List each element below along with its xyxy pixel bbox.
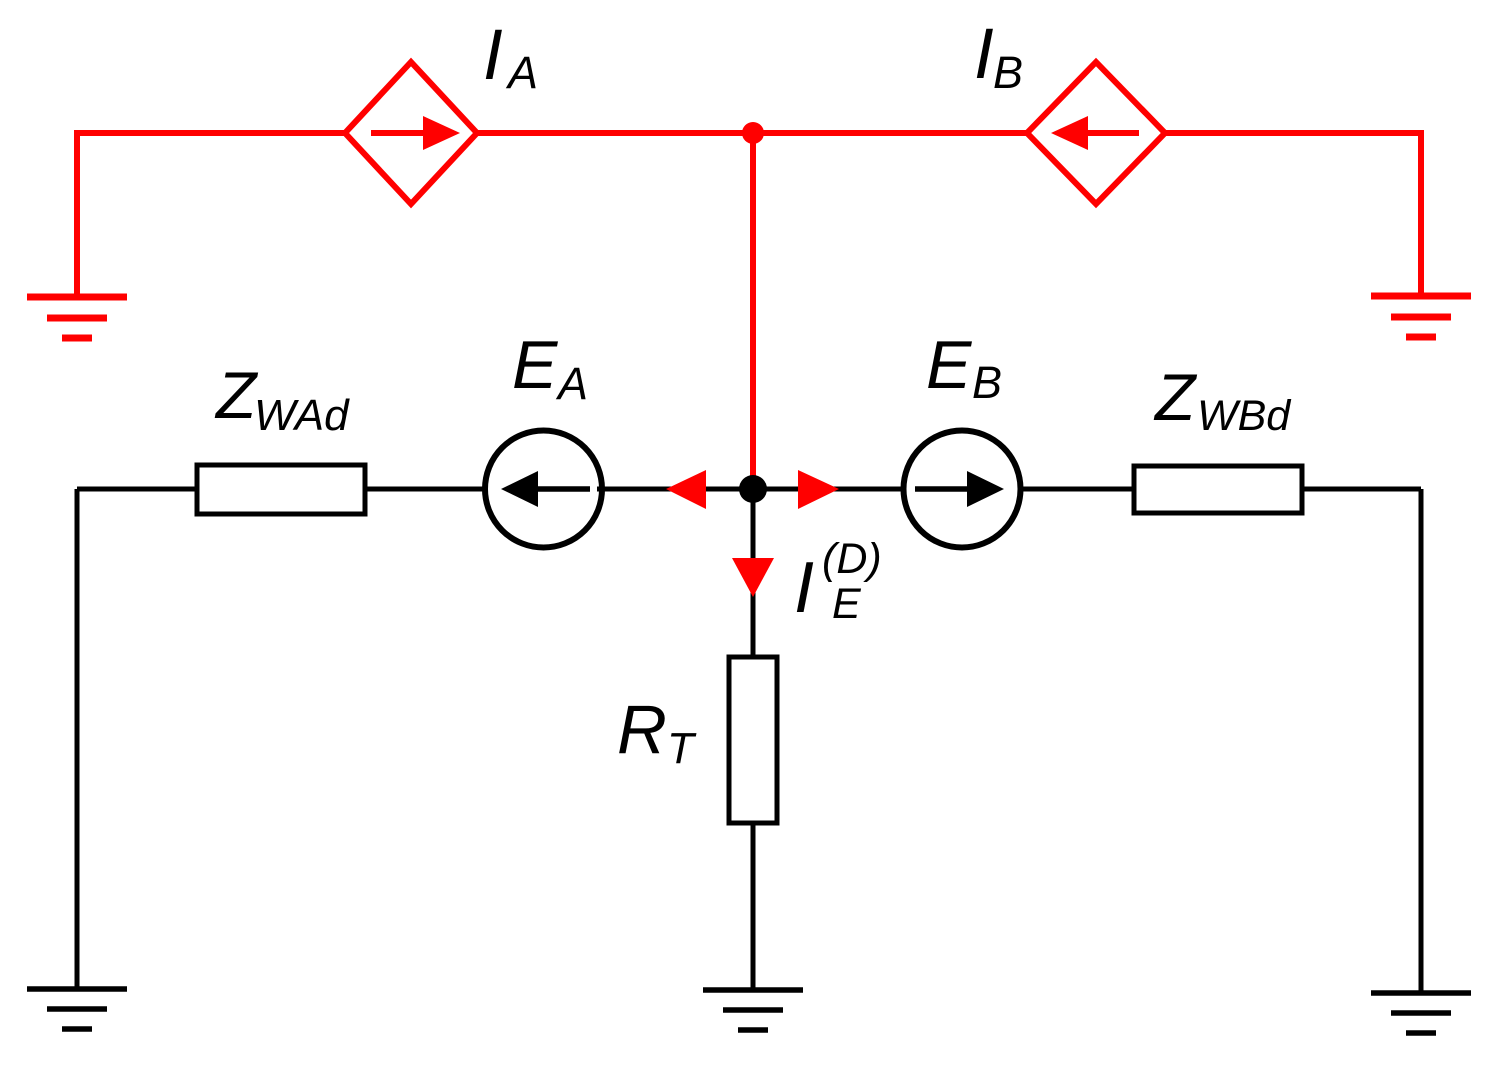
svg-text:WBd: WBd (1197, 392, 1292, 440)
ground GND4 bottom-right (black) (1371, 993, 1471, 1033)
ground GND3 bottom-left (black) (27, 989, 127, 1029)
wire top-right horizontal (red) (1165, 133, 1421, 293)
wire RT to ground (black) (751, 823, 756, 989)
svg-text:WAd: WAd (254, 391, 350, 440)
arrowhead red down (current IE) (732, 558, 774, 597)
label IE(D) (794, 535, 882, 628)
svg-text:I: I (794, 548, 814, 628)
wire middle-left horizontal (black) (77, 487, 197, 492)
svg-text:B: B (972, 357, 1002, 408)
current source IB (diamond) (1027, 62, 1165, 204)
wire (black) (1021, 487, 1134, 492)
wire right vertical (black) (1419, 489, 1424, 992)
resistor RT (729, 657, 777, 823)
wire middle-right horizontal (black) (1302, 487, 1421, 492)
svg-text:E: E (512, 327, 558, 403)
resistor ZWBd (1134, 466, 1302, 513)
ground GND1 top-left (red) (27, 297, 127, 338)
resistor ZWAd (197, 465, 365, 514)
label ZWBd (1153, 360, 1292, 440)
svg-text:A: A (505, 47, 538, 98)
svg-text:B: B (993, 47, 1023, 98)
svg-text:Z: Z (214, 358, 259, 432)
wire (black) (365, 487, 490, 492)
arrowhead red left of node (666, 470, 706, 509)
label IB (974, 15, 1023, 98)
svg-text:E: E (832, 580, 862, 628)
svg-text:A: A (555, 358, 588, 409)
label ZWAd (214, 358, 350, 440)
wire top middle (red) (477, 130, 1027, 136)
svg-text:I: I (483, 16, 503, 95)
svg-text:(D): (D) (822, 535, 882, 583)
wire (black) through node (597, 487, 908, 492)
wire top-left horizontal (red) (77, 133, 345, 294)
wire left vertical (black) (75, 489, 80, 988)
wire node to RT (black) (751, 489, 756, 657)
current source IA (diamond) (345, 62, 477, 204)
voltage source EB (circle) (904, 431, 1021, 548)
label EA (512, 327, 588, 409)
node top junction (red dot) (742, 122, 764, 144)
svg-text:T: T (667, 724, 697, 773)
voltage source EA (circle) (485, 431, 602, 548)
ground GND2 top-right (red) (1371, 296, 1471, 337)
label IA (483, 16, 538, 98)
wire center vertical (red) (750, 133, 756, 485)
node center junction (black dot) (739, 475, 767, 503)
label EB (926, 327, 1002, 408)
arrowhead red right of node (798, 470, 839, 509)
label RT (617, 691, 697, 773)
ground GND5 bottom-center (black) (703, 990, 803, 1030)
svg-text:R: R (617, 691, 667, 768)
svg-text:Z: Z (1153, 360, 1198, 434)
svg-text:I: I (974, 15, 994, 94)
svg-text:E: E (926, 327, 972, 403)
